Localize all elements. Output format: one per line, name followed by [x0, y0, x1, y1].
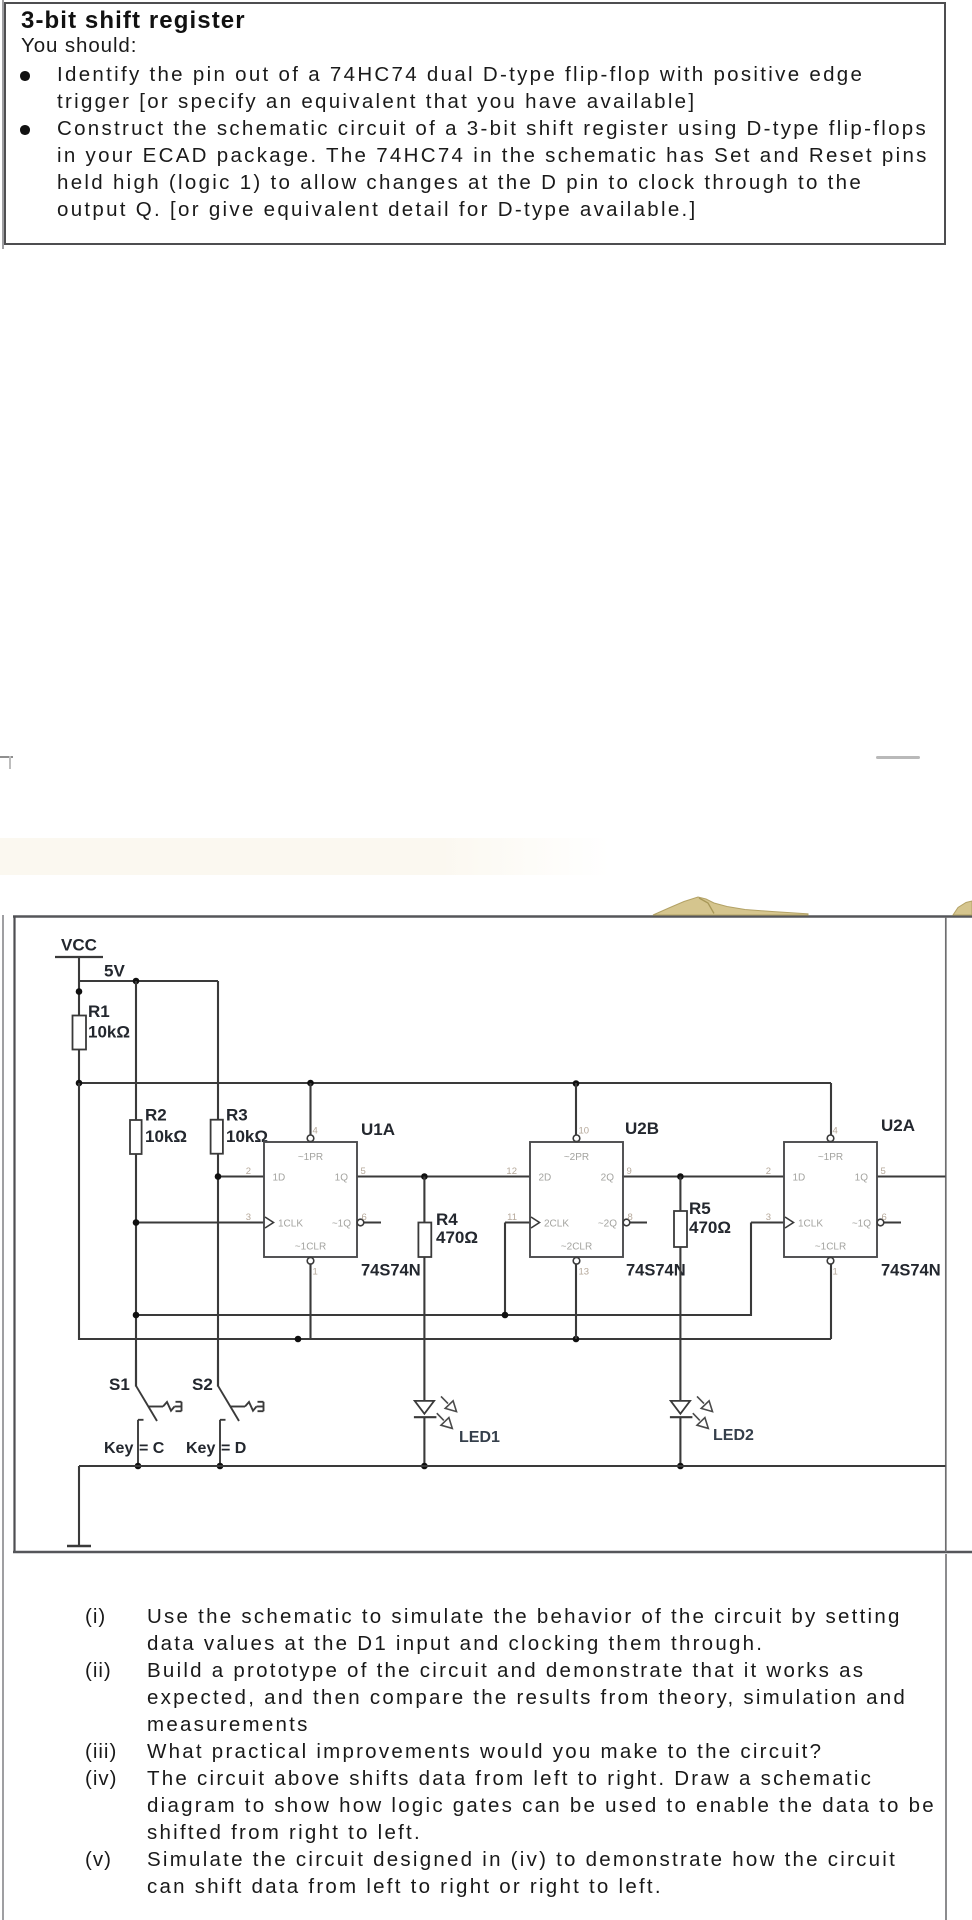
svg-text:1CLK: 1CLK — [278, 1219, 303, 1230]
svg-text:10kΩ: 10kΩ — [145, 1127, 187, 1146]
svg-text:R4: R4 — [436, 1210, 458, 1229]
svg-text:5: 5 — [881, 1166, 886, 1177]
svg-text:3: 3 — [246, 1212, 251, 1223]
svg-text:~2CLR: ~2CLR — [561, 1242, 592, 1253]
svg-text:= C: = C — [139, 1440, 165, 1457]
svg-text:~1Q: ~1Q — [332, 1219, 351, 1230]
svg-text:1Q: 1Q — [335, 1173, 349, 1184]
svg-text:2D: 2D — [539, 1173, 552, 1184]
svg-text:74S74N: 74S74N — [361, 1262, 421, 1280]
svg-text:1Q: 1Q — [855, 1173, 869, 1184]
svg-text:LED1: LED1 — [459, 1429, 500, 1446]
svg-text:10kΩ: 10kΩ — [226, 1127, 268, 1146]
svg-text:~2Q: ~2Q — [598, 1219, 617, 1230]
svg-text:12: 12 — [506, 1166, 517, 1177]
svg-text:~1PR: ~1PR — [298, 1152, 323, 1163]
svg-text:5: 5 — [361, 1166, 366, 1177]
svg-text:Key: Key — [186, 1440, 215, 1457]
svg-text:R5: R5 — [689, 1199, 711, 1218]
svg-text:1D: 1D — [273, 1173, 286, 1184]
svg-text:U1A: U1A — [361, 1120, 395, 1139]
svg-text:1: 1 — [833, 1267, 838, 1278]
svg-text:~1CLR: ~1CLR — [295, 1242, 326, 1253]
svg-text:9: 9 — [627, 1166, 632, 1177]
svg-text:~2PR: ~2PR — [564, 1152, 589, 1163]
svg-text:~1PR: ~1PR — [818, 1152, 843, 1163]
svg-text:10: 10 — [579, 1126, 590, 1137]
svg-text:2CLK: 2CLK — [544, 1219, 569, 1230]
svg-text:S1: S1 — [109, 1375, 130, 1394]
svg-text:2: 2 — [766, 1166, 771, 1177]
svg-text:5V: 5V — [104, 962, 125, 981]
svg-text:Key: Key — [104, 1440, 133, 1457]
svg-text:S2: S2 — [192, 1375, 213, 1394]
svg-text:8: 8 — [628, 1212, 633, 1223]
svg-text:LED2: LED2 — [713, 1427, 754, 1444]
svg-text:4: 4 — [313, 1126, 318, 1137]
svg-text:470Ω: 470Ω — [436, 1228, 478, 1247]
svg-text:6: 6 — [882, 1212, 887, 1223]
svg-text:~1CLR: ~1CLR — [815, 1242, 846, 1253]
svg-text:R2: R2 — [145, 1106, 167, 1125]
svg-text:VCC: VCC — [61, 936, 97, 955]
svg-text:1D: 1D — [793, 1173, 806, 1184]
svg-text:R3: R3 — [226, 1106, 248, 1125]
svg-text:U2B: U2B — [625, 1119, 659, 1138]
svg-text:74S74N: 74S74N — [626, 1262, 686, 1280]
svg-text:2: 2 — [246, 1166, 251, 1177]
svg-text:13: 13 — [579, 1267, 590, 1278]
svg-text:R1: R1 — [88, 1002, 110, 1021]
svg-text:74S74N: 74S74N — [881, 1262, 941, 1280]
svg-text:= D: = D — [221, 1440, 246, 1457]
svg-text:11: 11 — [507, 1212, 517, 1223]
svg-text:3: 3 — [766, 1212, 771, 1223]
svg-text:U2A: U2A — [881, 1116, 915, 1135]
svg-text:1: 1 — [313, 1267, 318, 1278]
svg-text:2Q: 2Q — [601, 1173, 615, 1184]
svg-text:~1Q: ~1Q — [852, 1219, 871, 1230]
svg-text:4: 4 — [833, 1126, 838, 1137]
svg-text:10kΩ: 10kΩ — [88, 1023, 130, 1042]
svg-text:1CLK: 1CLK — [798, 1219, 823, 1230]
svg-text:6: 6 — [362, 1212, 367, 1223]
svg-text:470Ω: 470Ω — [689, 1218, 731, 1237]
